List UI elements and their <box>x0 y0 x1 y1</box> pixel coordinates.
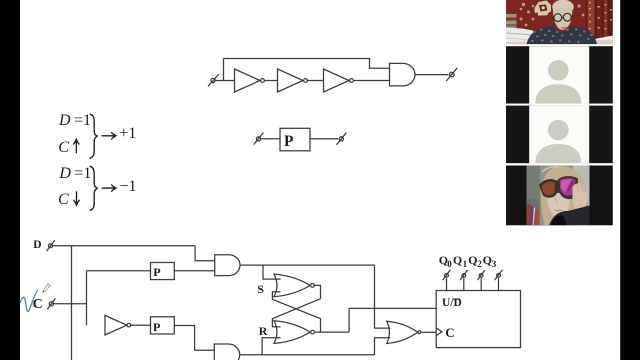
wire C branch vertical <box>86 271 88 325</box>
wire input to node A <box>216 80 235 82</box>
wire cross diagonal Q <box>272 299 320 327</box>
video tile 1: man with glasses, carpet wall <box>506 0 613 44</box>
label D input <box>33 240 41 252</box>
dark jacket right <box>549 206 590 226</box>
terminal D (slashed circle) <box>47 240 55 251</box>
terminal Q3 <box>495 270 503 280</box>
wire C to P1 <box>87 270 151 272</box>
label P1 <box>153 266 160 278</box>
pale desk band <box>506 40 613 44</box>
math minus1 <box>120 179 137 195</box>
video tile 2: empty seat avatar <box>506 46 613 103</box>
right terminal (slashed circle) <box>337 133 347 145</box>
right black bar <box>620 0 640 360</box>
strap <box>527 203 540 225</box>
arrow to -1 <box>102 185 116 192</box>
label Q2 <box>468 254 477 266</box>
head <box>552 0 574 14</box>
terminal C (slashed circle) <box>47 299 55 310</box>
wire Q0 <box>446 278 448 291</box>
white paper lower-right <box>573 36 613 45</box>
carpet small motifs <box>520 3 585 27</box>
video tile 4: woman with sunglasses <box>506 166 613 226</box>
arrow to +1 <box>102 132 116 139</box>
wire P1 to AND S <box>174 270 214 272</box>
brace 2 <box>90 166 98 210</box>
NOR gate R <box>274 321 314 344</box>
terminal Q2 <box>477 270 485 280</box>
wire D jog into AND S <box>195 246 215 261</box>
glasses <box>552 13 575 21</box>
inverter 3 <box>324 69 354 92</box>
D overline of U/D label <box>453 298 460 300</box>
wire S drop to latch <box>263 265 281 279</box>
label Q3 <box>483 254 492 266</box>
wire inv1-inv2 <box>265 80 278 82</box>
wire UD riser <box>348 308 350 332</box>
wire S branch to OR <box>375 265 391 328</box>
wire S pulse <box>240 264 375 266</box>
label C input <box>33 298 43 312</box>
carpet left border strip <box>506 14 517 28</box>
separator 3 <box>506 163 613 165</box>
wire D vertical to bottom <box>71 246 73 360</box>
output terminal (slashed circle) <box>446 68 457 81</box>
wire C horizontal <box>54 303 87 305</box>
label Q2 sub <box>477 260 482 269</box>
label C clock <box>445 326 454 339</box>
math eq 2 <box>74 166 91 182</box>
label UD <box>442 298 462 310</box>
carpet right dark column <box>586 0 613 44</box>
math D 1 <box>59 113 71 129</box>
label S <box>257 283 264 295</box>
wire clock to counter <box>421 331 436 333</box>
lips <box>562 26 568 29</box>
AND gate R <box>214 344 239 360</box>
pencil cursor <box>43 283 51 292</box>
counter block U/D <box>436 291 520 348</box>
label Q0 sub <box>447 260 452 269</box>
black turtleneck <box>551 215 567 225</box>
hair <box>541 166 586 225</box>
wire cross diagonal Qbar <box>272 292 320 332</box>
terminal Q1 <box>460 270 468 280</box>
sunglasses <box>539 176 578 199</box>
arrow up C <box>73 139 79 153</box>
P box P2 <box>151 317 175 334</box>
inverter C <box>105 315 131 335</box>
label P middle <box>284 134 293 150</box>
clock chevron <box>436 328 442 336</box>
brace 1 <box>90 114 98 158</box>
wire Q1 <box>463 278 465 291</box>
wire to P box <box>261 138 280 140</box>
math C 1 <box>58 140 69 156</box>
separator 1 <box>506 44 613 46</box>
input terminal (slashed circle) <box>208 74 219 86</box>
wire R branch to OR <box>375 338 391 355</box>
wire U/D to counter <box>349 307 436 309</box>
math C 2 <box>58 192 69 208</box>
wire inv2-inv3 <box>308 80 324 82</box>
carpet medallion <box>535 1 552 16</box>
wire AND output <box>415 74 449 76</box>
label R <box>259 325 268 337</box>
wire D horizontal <box>53 245 195 247</box>
blue marker squiggle on C <box>20 290 38 311</box>
wire inv3 to AND <box>354 80 390 82</box>
desk white lower-left <box>506 28 533 45</box>
wire R NOR output to UD riser <box>315 331 349 333</box>
hand <box>572 183 587 210</box>
label P2 <box>153 321 160 333</box>
wire R rise to latch <box>262 338 280 355</box>
left terminal (slashed circle) <box>254 133 264 145</box>
sweater <box>527 26 598 45</box>
P box (middle) <box>280 128 310 151</box>
left black bar <box>0 0 20 360</box>
wire feedback top <box>224 59 390 69</box>
label Q1 <box>453 254 462 266</box>
math eq 1 <box>74 113 91 129</box>
wire inverter out to P2 <box>131 324 151 326</box>
wire Q2 <box>480 278 482 291</box>
video tile 3: empty seat avatar <box>506 106 613 164</box>
wire from P box <box>310 138 338 140</box>
inverter 1 <box>235 69 265 92</box>
P box P1 <box>151 263 175 280</box>
arrow down C <box>73 191 79 205</box>
label Q3 sub <box>492 260 497 269</box>
wire Q3 <box>498 278 500 291</box>
wire S NOR output <box>315 285 321 298</box>
label Q0 <box>439 254 448 266</box>
node A feedback riser <box>223 59 225 81</box>
inverter 2 <box>278 69 308 92</box>
NOR gate S <box>274 274 314 297</box>
terminal Q0 <box>443 270 451 280</box>
wire P2 jog to AND R <box>174 326 214 351</box>
math D 2 <box>59 166 71 182</box>
label Q1 sub <box>463 260 468 269</box>
separator 2 <box>506 104 613 106</box>
face <box>547 188 569 217</box>
math plus1 <box>119 126 136 142</box>
AND gate U1 <box>390 63 415 86</box>
NOR gate clock <box>387 321 421 343</box>
wire R pulse <box>240 354 375 356</box>
AND gate S <box>215 255 240 276</box>
